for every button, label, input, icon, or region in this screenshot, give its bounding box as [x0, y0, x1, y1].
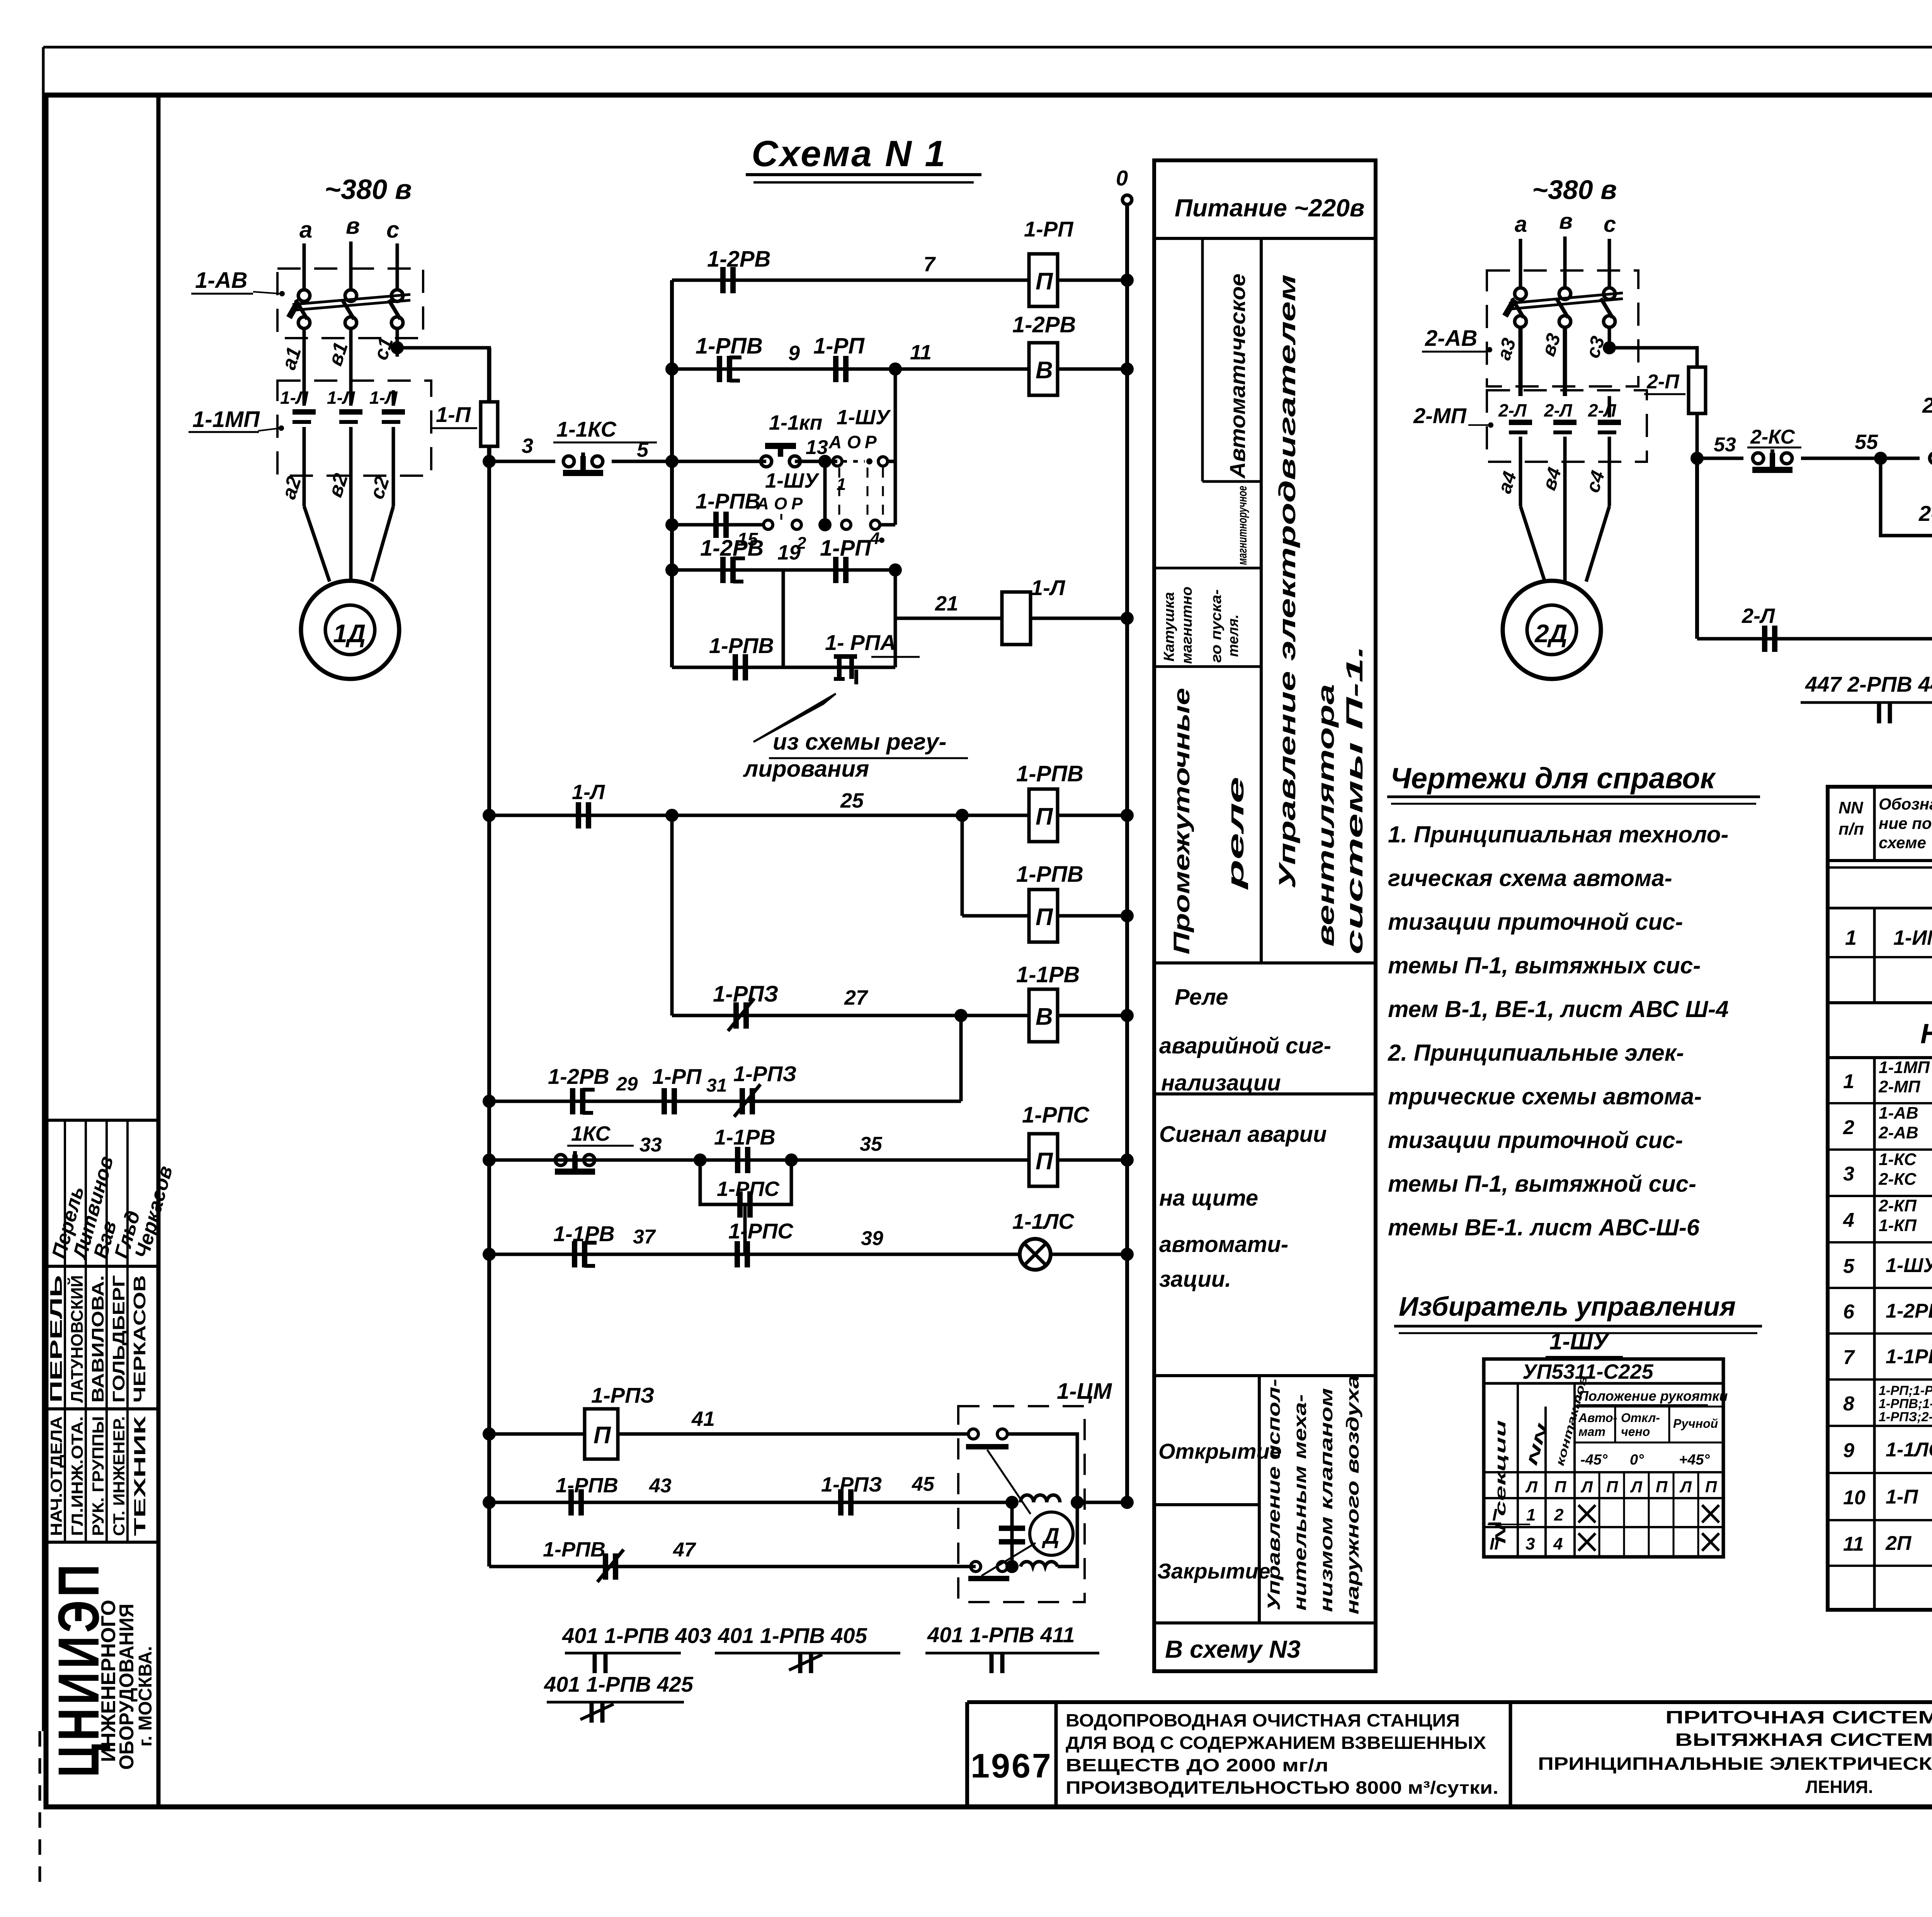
svg-text:1-РП: 1-РП — [820, 536, 871, 561]
svg-text:37: 37 — [633, 1226, 656, 1248]
contact 1-RPZ row27 — [733, 1002, 739, 1029]
svg-text:Промежуточные: Промежуточные — [1169, 688, 1194, 954]
svg-text:схеме: схеме — [1879, 833, 1926, 852]
selector table frame — [1484, 1359, 1723, 1557]
svg-text:2-Л: 2-Л — [1498, 400, 1527, 420]
actuator link upper — [987, 1450, 1031, 1514]
svg-text:1-РПС: 1-РПС — [728, 1219, 794, 1243]
svg-text:1-РП: 1-РП — [813, 333, 865, 359]
wire 55 — [1801, 457, 1920, 460]
svg-text:На щите автоматизации: На щите автоматизации — [1920, 1019, 1932, 1050]
svg-text:3: 3 — [1843, 1163, 1854, 1185]
svg-text:наружного воздуха: наружного воздуха — [1343, 1375, 1362, 1614]
svg-text:+45°: +45° — [1679, 1452, 1710, 1468]
svg-text:1: 1 — [1845, 926, 1857, 949]
svg-text:2-КС: 2-КС — [1878, 1170, 1917, 1189]
svg-text:ВЕЩЕСТВ ДО 2000 мг/л: ВЕЩЕСТВ ДО 2000 мг/л — [1066, 1755, 1328, 1775]
svg-text:11: 11 — [910, 341, 932, 364]
svg-text:ВЫТЯЖНАЯ СИСТЕМА В-1.: ВЫТЯЖНАЯ СИСТЕМА В-1. — [1675, 1730, 1932, 1750]
wire c1 to fuse — [397, 348, 489, 367]
svg-text:4: 4 — [1553, 1534, 1563, 1553]
svg-text:Реле: Реле — [1175, 985, 1228, 1010]
wire row13 right — [888, 460, 895, 463]
svg-text:1-РП;1-РПВ: 1-РП;1-РПВ — [1879, 1383, 1932, 1398]
svg-text:1-РПВ: 1-РПВ — [1016, 761, 1083, 786]
annotation col divider — [1260, 238, 1263, 963]
svg-text:2-Л: 2-Л — [1742, 604, 1776, 628]
svg-text:О: О — [847, 432, 861, 452]
actuator bottom contact — [971, 1561, 981, 1572]
contact 1-RP row9 — [833, 356, 838, 382]
svg-text:1-АВ: 1-АВ — [195, 268, 247, 293]
svg-text:П: П — [1656, 1478, 1668, 1496]
svg-text:автомати-: автомати- — [1159, 1232, 1288, 1257]
svg-text:5: 5 — [637, 438, 649, 461]
actuator bottom wire — [1058, 1502, 1077, 1567]
svg-text:Избиратель управления: Избиратель управления — [1399, 1291, 1736, 1322]
svg-text:9: 9 — [788, 342, 800, 365]
svg-text:1-1ЛС: 1-1ЛС — [1886, 1439, 1932, 1461]
svg-text:1КС: 1КС — [571, 1122, 611, 1145]
button 1-1KS — [563, 456, 574, 467]
wire row9 — [672, 367, 1029, 371]
svg-text:1-1РВ: 1-1РВ — [714, 1125, 776, 1149]
svg-text:2: 2 — [1554, 1505, 1564, 1524]
stamp grid — [46, 1119, 158, 1122]
svg-text:1-2РВ: 1-2РВ — [1012, 312, 1076, 337]
actuator lower inductor — [1020, 1561, 1058, 1567]
svg-text:11: 11 — [1843, 1533, 1864, 1555]
wire row15 — [672, 523, 764, 527]
parts table body grid — [1873, 1058, 1876, 1610]
svg-text:1-РПЗ: 1-РПЗ — [713, 981, 778, 1007]
wire row21 — [895, 617, 1002, 620]
contact 1-RPS row37 — [735, 1241, 740, 1267]
svg-text:II: II — [1490, 1534, 1499, 1553]
title block frame — [967, 1700, 1932, 1704]
svg-text:Л: Л — [1525, 1478, 1538, 1496]
svg-text:1-РПВ: 1-РПВ — [1016, 862, 1083, 887]
contact 1-2RV row19 — [720, 557, 726, 583]
svg-text:401 1-РПВ 425: 401 1-РПВ 425 — [544, 1672, 694, 1696]
svg-text:2-АВ: 2-АВ — [1878, 1123, 1918, 1142]
svg-text:А: А — [756, 494, 769, 513]
wire row41 — [489, 1432, 585, 1436]
contact 1-RPV row15 — [713, 512, 719, 538]
svg-text:Управление электродвигателем: Управление электродвигателем — [1274, 274, 1300, 889]
relay coil 1-RPV b — [1029, 890, 1058, 942]
svg-text:1-РПВ: 1-РПВ — [556, 1474, 618, 1497]
svg-text:А: А — [828, 432, 842, 452]
link rail row25 to row27 — [670, 815, 674, 1015]
svg-text:2-РПВ: 2-РПВ — [1918, 501, 1932, 526]
contact 1-1RV row33 — [735, 1147, 740, 1173]
wire row19 — [672, 568, 895, 572]
svg-text:1-РПВ;1-РПС: 1-РПВ;1-РПС — [1879, 1397, 1932, 1411]
svg-text:нализации: нализации — [1161, 1070, 1281, 1095]
svg-text:в: в — [1559, 209, 1573, 234]
svg-text:1-П: 1-П — [436, 402, 471, 427]
annotation divider v shemu — [1154, 1621, 1376, 1624]
svg-text:2-КС: 2-КС — [1750, 426, 1796, 448]
svg-text:31: 31 — [706, 1075, 727, 1096]
contact 1-RPV row47 — [603, 1553, 608, 1580]
breaker 1-AV contacts — [298, 290, 310, 301]
annotation divider otkrytie col — [1258, 1376, 1261, 1623]
svg-text:Л: Л — [1630, 1478, 1643, 1496]
svg-text:55: 55 — [1855, 430, 1878, 454]
svg-text:2-МП: 2-МП — [1413, 403, 1467, 428]
svg-text:ЧЕРКАСОВ: ЧЕРКАСОВ — [130, 1275, 149, 1403]
svg-text:1-РПВ: 1-РПВ — [696, 333, 763, 359]
motor 2D — [1503, 581, 1601, 679]
svg-text:чено: чено — [1621, 1425, 1650, 1439]
selector row LP — [1484, 1471, 1723, 1473]
wire a1 — [303, 328, 306, 390]
svg-text:1-КП: 1-КП — [1879, 1216, 1917, 1235]
svg-text:на щите: на щите — [1159, 1186, 1258, 1211]
relay coil 1-2RV — [1029, 343, 1058, 395]
starter 2-L main contacts — [1509, 420, 1532, 425]
contact 1-RP row19 — [833, 557, 838, 583]
svg-text:ПРИТОЧНАЯ СИСТЕМА П-1;: ПРИТОЧНАЯ СИСТЕМА П-1; — [1665, 1707, 1932, 1727]
wire row59 — [1697, 637, 1932, 641]
svg-text:с: с — [386, 217, 399, 243]
svg-text:нительным меха-: нительным меха- — [1290, 1394, 1310, 1611]
svg-text:29: 29 — [616, 1073, 638, 1095]
svg-text:1-Л: 1-Л — [327, 388, 355, 408]
svg-text:П: П — [1554, 1478, 1566, 1496]
svg-text:1-1РВ: 1-1РВ — [1886, 1345, 1932, 1368]
svg-text:1-РП: 1-РП — [1024, 217, 1074, 241]
svg-text:1-РПЗ: 1-РПЗ — [733, 1061, 796, 1086]
wire row3 from fuse to button — [483, 455, 496, 468]
actuator 1-TsM enclosure — [958, 1406, 1085, 1602]
contact 1-RP row29 — [662, 1088, 667, 1114]
link rows 11-13-15 — [894, 369, 897, 525]
contact 1-RPV row23 — [733, 654, 738, 680]
svg-text:а: а — [1515, 212, 1527, 237]
note from regulation scheme — [753, 694, 836, 742]
wire to bus row25b — [1058, 914, 1127, 918]
svg-text:~380 в: ~380 в — [1532, 175, 1617, 205]
svg-text:г. МОСКВА.: г. МОСКВА. — [135, 1646, 156, 1747]
node row33 a — [694, 1153, 707, 1167]
svg-text:1-ШУ: 1-ШУ — [765, 469, 820, 492]
svg-text:1-Л: 1-Л — [369, 388, 398, 408]
svg-text:системы П-1.: системы П-1. — [1342, 645, 1367, 954]
svg-text:2П: 2П — [1885, 1532, 1912, 1555]
wire coil to bus row7 — [1058, 279, 1127, 282]
svg-text:низмом клапаном: низмом клапаном — [1316, 1388, 1336, 1612]
svg-text:9: 9 — [1843, 1439, 1854, 1462]
svg-text:НАЧ.ОТДЕЛА: НАЧ.ОТДЕЛА — [47, 1416, 65, 1536]
svg-text:Обозначе: Обозначе — [1879, 795, 1932, 813]
contact 1-2RV row29 — [570, 1088, 575, 1114]
svg-text:27: 27 — [844, 986, 869, 1009]
contact 1-RPV row9 — [717, 356, 722, 382]
svg-text:NN: NN — [1838, 798, 1864, 817]
fuse 2-P — [1689, 367, 1706, 413]
signal lamp 1-1LS — [1020, 1239, 1051, 1270]
svg-text:0°: 0° — [1630, 1452, 1644, 1468]
svg-text:2-КП: 2-КП — [1922, 393, 1932, 417]
svg-text:35: 35 — [860, 1133, 883, 1155]
annotation header Pitanie 220V — [1154, 237, 1376, 240]
link row13 to row15 — [823, 461, 827, 525]
wire row27 — [672, 1014, 1029, 1017]
svg-text:1-П: 1-П — [1886, 1486, 1918, 1508]
node row25 — [956, 809, 969, 822]
node 55 — [1874, 452, 1887, 465]
svg-text:Положение рукоятки: Положение рукоятки — [1578, 1388, 1728, 1404]
svg-text:-45°: -45° — [1580, 1452, 1608, 1468]
button 1KS — [555, 1155, 566, 1165]
svg-text:21: 21 — [935, 592, 958, 615]
node c3 — [1603, 341, 1616, 354]
svg-text:реле: реле — [1223, 777, 1248, 890]
svg-text:2-Л: 2-Л — [1544, 400, 1573, 420]
annotation divider otkrytie — [1154, 1374, 1376, 1377]
button 2-KP — [1930, 453, 1932, 464]
svg-text:Откл-: Откл- — [1621, 1411, 1660, 1425]
wire row7 — [672, 279, 1029, 282]
node row19 — [889, 563, 902, 577]
svg-text:ВАВИЛОВА.: ВАВИЛОВА. — [88, 1275, 107, 1403]
wire to bus row27 — [1058, 1014, 1127, 1017]
wire to bus row37 — [1051, 1253, 1127, 1256]
button 1-1KP — [761, 456, 772, 467]
svg-text:2Д: 2Д — [1534, 619, 1567, 648]
link row19 to row21 — [894, 570, 897, 667]
svg-text:1-ШУ: 1-ШУ — [1549, 1328, 1610, 1354]
svg-text:1. Принципиальная техноло-: 1. Принципиальная техноло- — [1388, 822, 1728, 847]
svg-text:41: 41 — [691, 1407, 715, 1431]
breaker 2-AV contacts — [1515, 288, 1526, 299]
relay coil 1-1RV — [1029, 989, 1058, 1042]
svg-text:аварийной сиг-: аварийной сиг- — [1159, 1033, 1331, 1058]
contact 1-RPZ row29 — [740, 1088, 745, 1114]
svg-text:вентилятора: вентилятора — [1313, 684, 1339, 947]
svg-text:Схема N 1: Схема N 1 — [752, 133, 947, 174]
annotation divider rele avar — [1154, 961, 1376, 964]
wire row25b — [962, 914, 1029, 918]
svg-text:1-КС: 1-КС — [1879, 1150, 1917, 1169]
svg-text:45: 45 — [912, 1473, 935, 1495]
svg-text:1-1РВ: 1-1РВ — [1016, 962, 1080, 987]
contact 1-RPV row43 — [568, 1489, 574, 1516]
svg-text:7: 7 — [1843, 1346, 1855, 1369]
svg-text:1-2РВ: 1-2РВ — [700, 536, 764, 561]
svg-text:1-1РВ: 1-1РВ — [553, 1221, 615, 1246]
node actuator left — [1005, 1496, 1019, 1509]
node row27 — [954, 1009, 968, 1022]
bypass contact 1-RPS — [700, 1160, 791, 1204]
parts table frame — [1828, 787, 1932, 1610]
svg-text:3: 3 — [1526, 1534, 1535, 1553]
svg-text:1: 1 — [1843, 1070, 1854, 1093]
svg-text:1-2РВ: 1-2РВ — [548, 1064, 609, 1089]
relay coil 1-RPV a — [1029, 789, 1058, 842]
svg-text:Управление испол-: Управление испол- — [1264, 1379, 1284, 1611]
fuse 1-P — [481, 402, 498, 446]
svg-text:ОБОРУДОВАНИЯ: ОБОРУДОВАНИЯ — [116, 1604, 138, 1770]
svg-text:Л: Л — [1580, 1478, 1593, 1496]
actuator capacitor branch — [1010, 1502, 1014, 1567]
svg-text:В схему N3: В схему N3 — [1165, 1635, 1301, 1663]
svg-text:РУК. ГРУППЫ: РУК. ГРУППЫ — [89, 1416, 107, 1536]
bypass contact 2-RPV — [1881, 458, 1932, 536]
svg-text:Открытие: Открытие — [1158, 1439, 1282, 1463]
svg-text:1-РПЗ: 1-РПЗ — [591, 1383, 654, 1407]
wire row47 — [489, 1565, 976, 1568]
outer border top — [43, 46, 1932, 49]
svg-text:1-1МП: 1-1МП — [1879, 1058, 1930, 1077]
svg-text:1-ШУ: 1-ШУ — [837, 406, 891, 429]
svg-text:П: П — [1036, 904, 1053, 930]
svg-text:лирования: лирования — [743, 756, 869, 782]
schema2 row53 wire — [1690, 452, 1704, 465]
svg-text:1: 1 — [1526, 1505, 1536, 1524]
svg-text:401 1-РПВ 405: 401 1-РПВ 405 — [718, 1623, 867, 1648]
svg-text:447 2-РПВ 441: 447 2-РПВ 441 — [1805, 672, 1932, 696]
svg-text:Ручной: Ручной — [1673, 1417, 1718, 1431]
svg-text:а: а — [299, 217, 312, 243]
svg-text:1-АВ: 1-АВ — [1879, 1104, 1918, 1123]
svg-text:6: 6 — [1843, 1301, 1855, 1323]
wire coil to bus row9 — [1058, 367, 1127, 371]
contact 1-1RV row37 — [572, 1241, 577, 1267]
svg-text:7: 7 — [923, 253, 936, 276]
svg-text:магнитно: магнитно — [1179, 587, 1195, 664]
svg-text:из схемы регу-: из схемы регу- — [773, 729, 946, 755]
svg-text:Питание ~220в: Питание ~220в — [1175, 194, 1365, 222]
svg-text:теля.: теля. — [1225, 614, 1242, 657]
actuator upper inductor — [1020, 1495, 1060, 1502]
svg-text:темы ВЕ-1. лист АВС-Ш-6: темы ВЕ-1. лист АВС-Ш-6 — [1388, 1214, 1700, 1240]
svg-text:2-Л: 2-Л — [1588, 400, 1617, 420]
wire c3 — [1608, 327, 1611, 348]
svg-text:25: 25 — [840, 789, 864, 812]
svg-text:Автоматическое: Автоматическое — [1225, 274, 1250, 479]
node actuator bottom — [1005, 1560, 1019, 1573]
svg-text:ТЕХНИК: ТЕХНИК — [131, 1416, 149, 1536]
svg-text:1967: 1967 — [971, 1747, 1053, 1785]
svg-text:53: 53 — [1714, 434, 1736, 456]
svg-text:мат: мат — [1578, 1425, 1605, 1439]
svg-text:Чертежи для справок: Чертежи для справок — [1390, 762, 1716, 795]
link row25 to row25b — [961, 815, 964, 916]
svg-text:1-Л: 1-Л — [280, 388, 309, 408]
svg-text:1-ИМ: 1-ИМ — [1893, 926, 1932, 949]
svg-text:гическая схема автома-: гическая схема автома- — [1388, 865, 1672, 891]
svg-text:ПРОИЗВОДИТЕЛЬНОСТЬЮ 8000 м³/су: ПРОИЗВОДИТЕЛЬНОСТЬЮ 8000 м³/сутки. — [1066, 1778, 1498, 1798]
breaker 2-AV enclosure — [1487, 270, 1638, 386]
annotation divider zakrytie — [1154, 1503, 1259, 1506]
motor 1D — [301, 581, 399, 679]
wire a3 — [1519, 327, 1523, 396]
svg-text:зации.: зации. — [1159, 1267, 1231, 1292]
svg-text:магнитноручное: магнитноручное — [1235, 486, 1249, 565]
annotation subcol divider — [1201, 238, 1204, 481]
svg-text:темы П-1, вытяжной сис-: темы П-1, вытяжной сис- — [1388, 1171, 1696, 1197]
svg-text:Р: Р — [791, 494, 803, 513]
node c1 — [391, 341, 404, 354]
svg-text:ние по: ние по — [1879, 814, 1932, 832]
svg-text:10: 10 — [1843, 1487, 1866, 1509]
svg-text:тизации приточной сис-: тизации приточной сис- — [1388, 1127, 1683, 1153]
svg-text:Р: Р — [865, 432, 877, 452]
svg-text:ГЛ.ИНЖ.ОТА.: ГЛ.ИНЖ.ОТА. — [68, 1416, 86, 1536]
svg-text:2-АВ: 2-АВ — [1425, 326, 1477, 351]
svg-text:темы П-1, вытяжных сис-: темы П-1, вытяжных сис- — [1388, 953, 1701, 978]
svg-text:го пуска-: го пуска- — [1208, 589, 1225, 663]
svg-text:1-РПВ: 1-РПВ — [696, 489, 760, 513]
svg-text:~380 в: ~380 в — [325, 174, 412, 205]
breaker 1-AV enclosure — [277, 269, 423, 338]
svg-text:47: 47 — [673, 1539, 696, 1561]
svg-text:4: 4 — [1843, 1209, 1854, 1232]
wire to bus row25 — [1058, 814, 1127, 817]
svg-text:1-РПЗ;2-РПВ: 1-РПЗ;2-РПВ — [1879, 1410, 1932, 1424]
svg-text:1: 1 — [837, 475, 846, 494]
actuator top contact — [968, 1429, 978, 1439]
svg-text:1Д: 1Д — [333, 619, 366, 648]
svg-text:19: 19 — [777, 541, 801, 564]
starter 1-1MP enclosure — [277, 381, 431, 476]
svg-text:ЛАТУНОВСКИЙ: ЛАТУНОВСКИЙ — [67, 1275, 87, 1403]
node actuator right — [1071, 1496, 1084, 1509]
relay coil 1-RPZ — [585, 1409, 618, 1459]
svg-text:ПРИНЦИПНАЛЬНЫЕ ЭЛЕКТРИЧЕСКИЕ С: ПРИНЦИПНАЛЬНЫЕ ЭЛЕКТРИЧЕСКИЕ СХЕМЫ УПРАВ… — [1538, 1754, 1932, 1774]
node row9-11 — [889, 362, 902, 376]
svg-text:1-РПС: 1-РПС — [717, 1177, 780, 1201]
svg-text:1-ШУ: 1-ШУ — [1886, 1254, 1932, 1277]
actuator motor D — [1030, 1512, 1073, 1555]
svg-text:1-ЦМ: 1-ЦМ — [1057, 1379, 1112, 1404]
svg-text:П: П — [1036, 268, 1053, 295]
svg-text:ДЛЯ ВОД С СОДЕРЖАНИЕМ ВЗВЕШЕНН: ДЛЯ ВОД С СОДЕРЖАНИЕМ ВЗВЕШЕННЫХ — [1066, 1733, 1486, 1753]
annotation table schema1 frame — [1154, 160, 1376, 1671]
svg-text:в: в — [346, 213, 360, 239]
svg-text:2: 2 — [1843, 1116, 1854, 1139]
svg-text:1-2РВ: 1-2РВ — [1886, 1300, 1932, 1322]
svg-text:Д: Д — [1041, 1524, 1060, 1549]
svg-text:2-П: 2-П — [1646, 371, 1680, 393]
wire to bus row33 — [1058, 1158, 1127, 1162]
link bypass to row37 — [743, 1204, 747, 1254]
contact 1-RPA row23 — [834, 654, 857, 659]
starter 1-1MP main contacts — [303, 390, 306, 406]
svg-text:ВОДОПРОВОДНАЯ ОЧИСТНАЯ СТАНЦИЯ: ВОДОПРОВОДНАЯ ОЧИСТНАЯ СТАНЦИЯ — [1066, 1710, 1460, 1730]
svg-text:Авто-: Авто- — [1578, 1411, 1617, 1425]
selector verticals — [1517, 1383, 1519, 1557]
motor 2D feeder slants — [1520, 506, 1545, 582]
wire c1 — [396, 328, 399, 357]
actuator link lower — [981, 1543, 1036, 1576]
contact 1-L row25 — [576, 802, 581, 828]
svg-text:1-Л: 1-Л — [1031, 575, 1066, 600]
svg-text:П: П — [1606, 1478, 1618, 1496]
svg-text:1- РПА: 1- РПА — [825, 630, 896, 655]
svg-text:В: В — [1036, 1004, 1053, 1030]
svg-text:ПЕРЕЛЬ: ПЕРЕЛЬ — [47, 1275, 66, 1403]
wire b3 — [1563, 327, 1567, 396]
svg-text:1-РПВ: 1-РПВ — [543, 1538, 605, 1561]
link row19 to row23 left — [782, 570, 785, 667]
svg-text:1-РПЗ: 1-РПЗ — [821, 1473, 882, 1496]
svg-text:О: О — [774, 494, 787, 513]
